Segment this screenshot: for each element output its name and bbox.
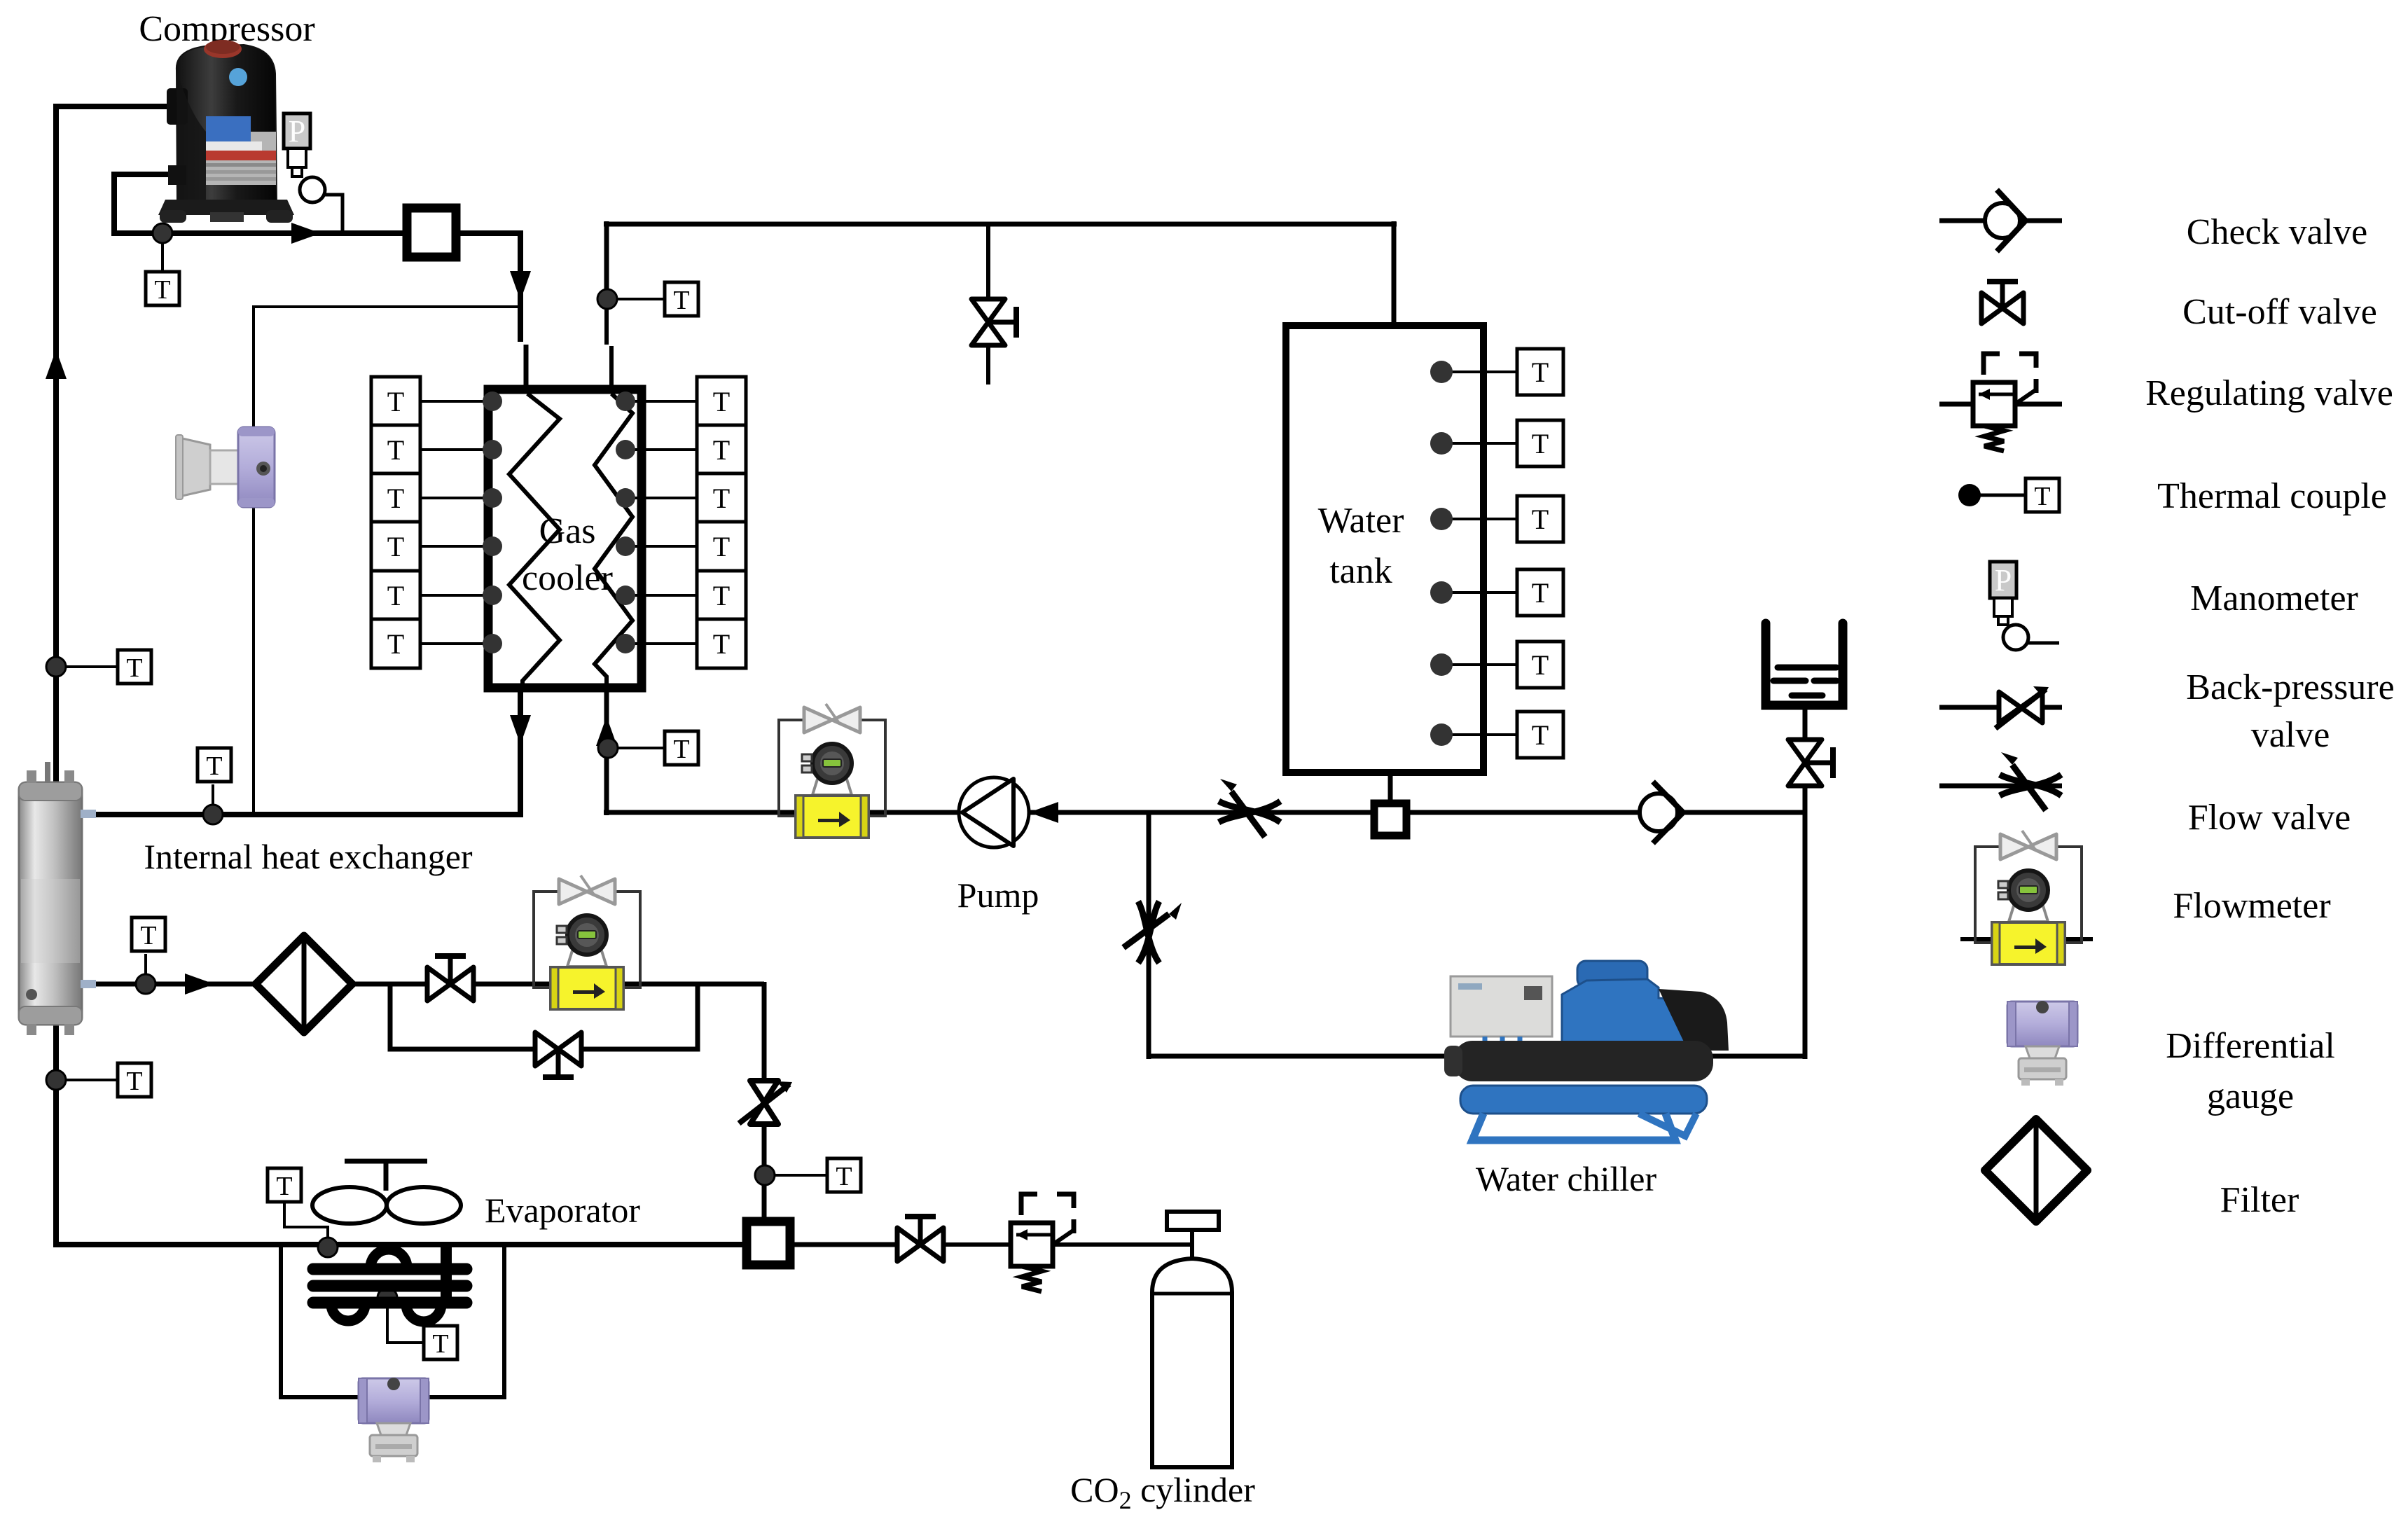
wire flowmeter to corner <box>621 982 764 987</box>
svg-text:Check valve: Check valve <box>2187 212 2367 252</box>
regulating valve legend <box>1973 354 2037 451</box>
wire tap line water inlet T <box>608 747 665 749</box>
wire bypass right <box>579 984 698 1049</box>
wire tank feed drop <box>1392 221 1397 328</box>
thermocouple T box suction bottom <box>118 1063 151 1097</box>
flow arrow down out of gas cooler <box>510 715 531 744</box>
svg-text:T: T <box>387 531 404 562</box>
evaporator coil <box>313 1245 466 1322</box>
svg-text:T: T <box>1532 356 1549 388</box>
evaporator fan <box>312 1161 461 1224</box>
svg-text:T: T <box>387 386 404 417</box>
wire gas cooler outlet drop <box>518 685 523 817</box>
node suction T tap <box>46 657 66 677</box>
flow arrow discharge right <box>291 223 321 244</box>
svg-text:T: T <box>1532 719 1549 751</box>
wire cylinder stem <box>1190 1228 1194 1261</box>
svg-text:Water: Water <box>1318 501 1404 541</box>
svg-text:T: T <box>126 1067 142 1096</box>
svg-text:CO2 cylinder: CO2 cylinder <box>1070 1470 1255 1514</box>
svg-text:Flowmeter: Flowmeter <box>2173 886 2330 926</box>
svg-text:T: T <box>387 434 404 466</box>
manometer P gauge <box>284 113 342 233</box>
cut-off valve bypass <box>535 1032 581 1077</box>
svg-text:T: T <box>1532 504 1549 535</box>
node discharge T tap <box>153 223 172 243</box>
legend manometer symbol <box>1990 562 2059 650</box>
pump <box>959 777 1029 847</box>
flow valve chiller branch <box>1123 901 1182 963</box>
node water outlet T tap <box>597 289 617 309</box>
svg-text:Manometer: Manometer <box>2190 579 2358 618</box>
wire pump suction line <box>1027 810 1371 815</box>
back-pressure valve legend <box>1995 686 2049 728</box>
wire junction to CO2 valve <box>792 1242 899 1247</box>
thermocouple T box pre-evaporator <box>827 1158 861 1192</box>
svg-text:T: T <box>673 286 689 315</box>
legend flow valve symbol <box>1939 784 2062 789</box>
check valve water line <box>1640 782 1683 843</box>
wire dp tap upper drop <box>252 305 255 429</box>
water tank bottom stem <box>1388 773 1393 803</box>
gas cooler left thermocouple column <box>371 377 502 426</box>
water tank thermocouples <box>1430 349 1563 395</box>
svg-text:P: P <box>1995 563 2012 597</box>
svg-text:T: T <box>154 275 170 305</box>
svg-text:Filter: Filter <box>2220 1180 2299 1220</box>
cut-off valve legend <box>1981 282 2023 324</box>
wire tap suction T line <box>56 665 116 668</box>
legend regulating valve symbol <box>1939 402 2062 407</box>
flowmeter refrigerant <box>534 875 640 1009</box>
wire gas cooler water inlet riser <box>604 686 609 815</box>
node gas cooler outlet T tap <box>203 805 223 824</box>
svg-text:Cut-off valve: Cut-off valve <box>2182 292 2377 332</box>
svg-text:T: T <box>432 1329 448 1359</box>
cut-off valve liquid line <box>427 956 473 1001</box>
wire back-pressure valve to junction <box>762 1121 767 1220</box>
wire tap stem discharge T <box>161 233 164 273</box>
flow arrow riser up <box>46 349 67 379</box>
wire regulator to cylinder <box>1053 1242 1193 1247</box>
wire valve to flowmeter <box>472 982 553 987</box>
svg-text:T: T <box>387 483 404 514</box>
compressor <box>158 40 294 223</box>
differential gauge evaporator dp gauge <box>359 1378 429 1462</box>
svg-text:Evaporator: Evaporator <box>485 1191 640 1230</box>
flowmeter water <box>779 704 885 838</box>
svg-text:T: T <box>140 921 156 950</box>
differential gauge legend <box>2007 1001 2077 1086</box>
legend filter symbol <box>1985 1119 2087 1221</box>
wire water line to flowmeter <box>604 810 798 815</box>
flow arrow water up into gas cooler <box>596 716 617 746</box>
wire tap line pre-evap T <box>765 1174 828 1177</box>
legend thermal couple symbol <box>1958 478 2059 512</box>
wire reservoir stem <box>1803 707 1808 741</box>
open reservoir <box>1766 623 1843 705</box>
svg-text:T: T <box>1532 428 1549 459</box>
wire bypass left <box>390 984 538 1049</box>
node liquid line T tap <box>136 974 155 994</box>
wire tap stem gc outlet T <box>212 784 214 815</box>
svg-text:T: T <box>276 1172 292 1201</box>
legend back-pressure valve symbol <box>1939 705 2062 710</box>
wire discharge main left <box>114 230 403 236</box>
back-pressure valve expansion <box>739 1081 792 1124</box>
svg-text:Regulating valve: Regulating valve <box>2145 373 2393 413</box>
gas cooler right thermocouple column <box>616 377 746 426</box>
svg-text:T: T <box>387 628 404 660</box>
wire water top line <box>604 222 1397 227</box>
svg-text:valve: valve <box>2251 715 2330 755</box>
wire discharge down to gas cooler <box>518 233 523 342</box>
flow valve legend <box>2000 752 2061 810</box>
wire suction riser left <box>53 104 59 1247</box>
svg-text:cooler: cooler <box>522 558 613 598</box>
cut-off valve reservoir drain <box>1788 740 1833 786</box>
cut-off valve CO2 charge <box>897 1217 943 1261</box>
svg-text:T: T <box>387 580 404 611</box>
wire valve to regulator <box>942 1242 1012 1247</box>
thermocouple T box evaporator coil <box>424 1326 457 1359</box>
wire tap stem liquid T <box>144 954 147 984</box>
svg-text:Back-pressure: Back-pressure <box>2186 667 2394 707</box>
wire drop to back-pressure valve <box>762 982 767 1084</box>
water tank shell <box>1286 326 1483 773</box>
svg-text:Differential: Differential <box>2166 1026 2335 1066</box>
wire dp tap top line <box>254 305 522 308</box>
node evaporator coil T tap <box>378 1288 397 1308</box>
flow arrow down into gas cooler <box>510 271 531 300</box>
wire tap elbow evap coil T <box>387 1298 425 1343</box>
thermocouple T box water outlet <box>665 282 698 316</box>
svg-text:Water chiller: Water chiller <box>1476 1159 1657 1198</box>
wire chiller branch down <box>1147 812 1151 1059</box>
water chiller <box>1444 961 1729 1140</box>
svg-text:T: T <box>836 1162 852 1191</box>
wire tank to check valve line <box>1410 810 1805 815</box>
node suction bottom T tap <box>46 1070 66 1090</box>
wire tap line water outlet T <box>607 298 665 300</box>
wire evaporator line <box>56 1242 744 1247</box>
wire compressor suction top <box>56 104 184 109</box>
wire tap stem suction bottom T <box>56 1079 116 1081</box>
cut-off valve water vent <box>971 299 1016 345</box>
gas cooler shell <box>488 389 642 688</box>
svg-text:T: T <box>713 580 730 611</box>
thermocouple T box evaporator inlet <box>268 1168 301 1202</box>
wire evaporator dp enclosure <box>281 1246 504 1397</box>
wire gas cooler outlet to IHX <box>79 812 523 817</box>
svg-text:T: T <box>713 628 730 660</box>
svg-text:T: T <box>713 386 730 417</box>
wire chiller right riser <box>1803 784 1808 1059</box>
wire gas cooler inlet break segment <box>524 345 529 392</box>
node evaporator inlet T tap <box>318 1238 338 1257</box>
wire liquid line to filter <box>79 982 260 987</box>
differential gauge gas cooler dp gauge <box>176 427 275 507</box>
flow valve tank line <box>1219 779 1280 837</box>
wire flowmeter to pump <box>866 810 962 815</box>
internal heat exchanger vessel <box>19 762 96 1035</box>
CO2 cylinder <box>1152 1212 1232 1467</box>
legend check valve symbol <box>1939 219 2062 223</box>
flow arrow liquid flow right <box>185 974 214 995</box>
filter <box>256 936 352 1032</box>
wire gas cooler water outlet riser <box>604 221 609 301</box>
flowmeter legend <box>1975 831 2082 964</box>
node water inlet T tap <box>598 738 618 758</box>
wire water outlet riser lower <box>604 299 609 345</box>
svg-text:T: T <box>713 434 730 466</box>
svg-text:T: T <box>713 531 730 562</box>
legend flowmeter symbol <box>1960 937 2093 941</box>
flow arrow flow into pump <box>1029 802 1058 823</box>
regulating valve CO2 regulator <box>1011 1194 1075 1291</box>
svg-text:T: T <box>126 653 142 683</box>
check valve legend <box>1985 190 2026 251</box>
wire discharge drop <box>111 172 117 236</box>
svg-text:gauge: gauge <box>2207 1076 2294 1116</box>
svg-text:P: P <box>289 114 305 148</box>
wire tap elbow evap inlet <box>284 1202 328 1247</box>
svg-text:Internal heat exchanger: Internal heat exchanger <box>144 837 473 876</box>
thermocouple T box liquid line <box>132 917 165 951</box>
wire chiller bottom line <box>1149 1054 1807 1059</box>
svg-text:Pump: Pump <box>957 875 1039 915</box>
svg-text:tank: tank <box>1329 551 1392 591</box>
water tank outlet square <box>1374 803 1406 836</box>
svg-text:Flow valve: Flow valve <box>2188 798 2351 838</box>
wire discharge main right <box>460 230 523 236</box>
node pre-evaporator T tap <box>755 1165 775 1185</box>
thermocouple T box gas cooler outlet <box>198 748 231 782</box>
wire vent outlet <box>986 346 990 385</box>
svg-text:T: T <box>1532 577 1549 609</box>
svg-text:T: T <box>673 735 689 764</box>
gas cooler right coil <box>595 394 632 692</box>
svg-text:Thermal couple: Thermal couple <box>2157 476 2387 516</box>
svg-text:T: T <box>713 483 730 514</box>
svg-text:T: T <box>1532 649 1549 681</box>
svg-text:T: T <box>2034 482 2050 511</box>
evaporator inlet junction square <box>747 1221 790 1265</box>
wire compressor discharge stub <box>114 172 191 177</box>
wire water inlet break segment <box>609 346 614 391</box>
svg-text:Gas: Gas <box>539 511 596 551</box>
wire filter to valve <box>348 982 429 987</box>
sight glass square on discharge line <box>407 208 456 257</box>
thermocouple T box discharge <box>146 272 179 305</box>
thermocouple T box water inlet <box>665 731 698 765</box>
svg-text:T: T <box>206 751 222 781</box>
gas cooler left coil <box>509 394 560 692</box>
wire vent branch <box>986 224 990 298</box>
wire dp tap lower drop <box>252 506 255 816</box>
thermocouple T box suction <box>118 650 151 684</box>
